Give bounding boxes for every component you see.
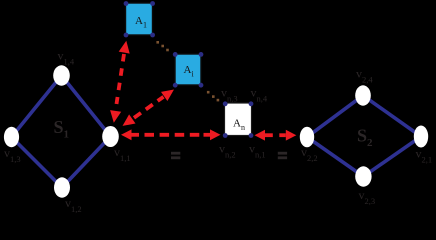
wire S1 edge v1,3-v1,2 xyxy=(12,137,63,188)
wire S2 edge v2,4-v2,1 xyxy=(363,96,421,137)
node v2,4 xyxy=(355,85,371,105)
box A1 xyxy=(126,3,153,35)
box An xyxy=(225,103,252,136)
handle dots Ai xyxy=(173,52,204,88)
dotted link Ai-An xyxy=(207,91,219,102)
red dashed arrow v1,1 to Ai xyxy=(123,90,175,126)
node v2,3 xyxy=(355,166,371,186)
node v1,3 xyxy=(4,127,19,147)
wire S2 edge v2,3-v2,1 xyxy=(363,137,421,177)
red dashed arrow v1,1 to A1 xyxy=(110,41,130,123)
wire S1 edge v1,4-v1,3 xyxy=(12,76,62,138)
wire S2 edge v2,4-v2,2 xyxy=(307,96,363,138)
node v2,1 xyxy=(414,126,428,148)
handle dots An xyxy=(223,101,254,138)
red dashed arrow An to v2,2 xyxy=(255,130,297,141)
wire S1 edge v1,4-v1,1 xyxy=(62,76,111,137)
handle dots A1 xyxy=(124,1,155,37)
dotted link A1-Ai xyxy=(156,41,168,51)
node v1,2 xyxy=(54,177,70,197)
equals sign right xyxy=(278,152,287,159)
red dashed arrow v1,1 to An xyxy=(121,129,221,140)
wire S1 edge v1,2-v1,1 xyxy=(62,137,111,188)
node v1,4 xyxy=(53,65,70,85)
box Ai xyxy=(175,54,201,85)
node v2,2 xyxy=(300,127,314,148)
equals sign left xyxy=(171,152,180,159)
wire S2 edge v2,2-v2,3 xyxy=(307,137,363,177)
node v1,1 xyxy=(102,126,119,147)
